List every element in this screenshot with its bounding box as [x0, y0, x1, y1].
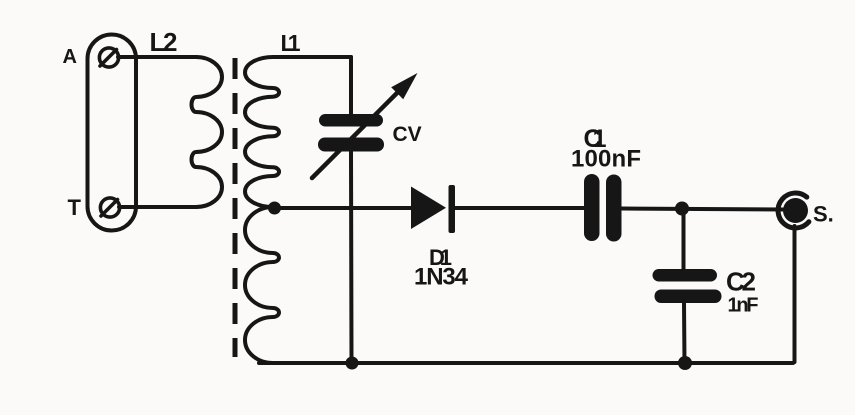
- terminal S ring: [778, 193, 809, 228]
- junction dot on bottom rail: [678, 356, 692, 370]
- wire: C1 to junction to S: [622, 209, 785, 210]
- wire: tap to diode anode: [274, 206, 412, 210]
- diode D1 triangle: [411, 187, 446, 230]
- screw terminal T: [100, 198, 119, 217]
- junction dot (C1 / C2 / S): [675, 202, 689, 216]
- svg-text:C2: C2: [726, 267, 756, 297]
- variable capacitor CV bottom plate: [318, 138, 384, 152]
- wire: S terminal down right side: [793, 226, 797, 362]
- wire: screw T to L2 bottom: [119, 205, 196, 209]
- svg-text:S.: S.: [813, 202, 834, 227]
- capacitor C2 top plate: [653, 269, 718, 282]
- capacitor C2 bottom plate: [655, 290, 722, 304]
- coil L2: [192, 57, 223, 207]
- svg-text:L2: L2: [150, 27, 178, 57]
- svg-text:100nF: 100nF: [571, 146, 641, 173]
- screw terminal A: [99, 48, 118, 67]
- svg-text:CV: CV: [393, 123, 422, 146]
- coil L1: [245, 57, 351, 363]
- terminal S dot: [783, 198, 808, 223]
- transformer core: [233, 58, 238, 357]
- svg-text:L1: L1: [281, 30, 301, 56]
- tap junction dot: [268, 202, 281, 215]
- wire: diode cathode to C1: [455, 206, 585, 210]
- wire: junction down to C2: [682, 209, 686, 270]
- svg-text:1N34: 1N34: [414, 264, 469, 291]
- wire: screw A to L2 top: [118, 55, 196, 59]
- variable capacitor CV top plate: [319, 114, 383, 127]
- svg-text:1nF: 1nF: [728, 295, 759, 317]
- terminal strip: [88, 35, 137, 231]
- junction dot (CV / bottom rail): [346, 357, 359, 370]
- capacitor C1 left plate: [584, 174, 600, 241]
- diode D1 cathode bar: [449, 185, 456, 233]
- wire: C2 down to bottom rail: [682, 303, 687, 364]
- bottom rail: [259, 361, 793, 365]
- CV arrow: [312, 73, 418, 178]
- svg-text:T: T: [68, 195, 82, 220]
- wire: CV bottom down to bottom rail: [349, 152, 354, 364]
- capacitor C1 right plate: [606, 175, 622, 242]
- wire: CV top (from L1 top corner down): [349, 57, 353, 114]
- svg-text:A: A: [63, 46, 77, 68]
